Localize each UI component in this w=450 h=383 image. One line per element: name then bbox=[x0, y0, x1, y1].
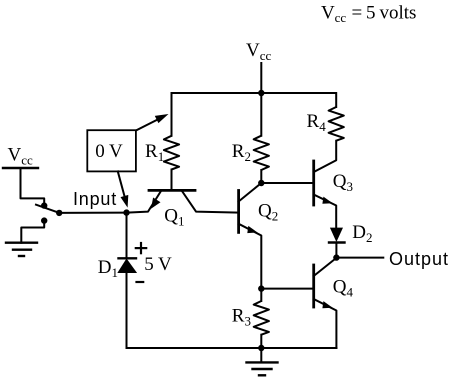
svg-text:R4: R4 bbox=[307, 111, 327, 134]
svg-text:Q4: Q4 bbox=[333, 276, 354, 299]
svg-text:Input: Input bbox=[73, 189, 117, 209]
svg-text:D2: D2 bbox=[352, 222, 372, 245]
svg-text:0V: 0V bbox=[95, 141, 123, 162]
svg-text:Q2: Q2 bbox=[258, 201, 278, 224]
svg-text:5V: 5V bbox=[144, 254, 172, 275]
svg-text:Vcc: Vcc bbox=[8, 144, 34, 167]
svg-text:Vcc: Vcc bbox=[246, 40, 272, 63]
svg-text:Output: Output bbox=[389, 249, 449, 269]
svg-text:Q1: Q1 bbox=[164, 205, 184, 228]
svg-text:R3: R3 bbox=[232, 306, 251, 329]
svg-text:R1: R1 bbox=[145, 141, 164, 164]
svg-text:Vcc=5volts: Vcc=5volts bbox=[321, 2, 416, 25]
svg-text:Q3: Q3 bbox=[333, 171, 353, 194]
svg-text:R2: R2 bbox=[232, 141, 251, 164]
svg-text:D1: D1 bbox=[98, 257, 118, 280]
